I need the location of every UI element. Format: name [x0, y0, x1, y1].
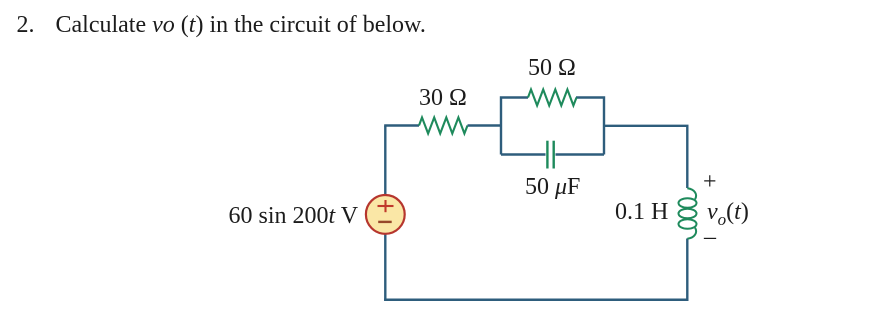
label plus terminal	[703, 170, 717, 194]
plus symbol inside source	[378, 200, 394, 212]
node: parallel box left edge	[501, 98, 528, 155]
label source value	[229, 204, 359, 228]
wire: box bottom left segment to capacitor	[501, 153, 546, 155]
wire: top-left horizontal into resistor R1	[384, 124, 419, 126]
label minus terminal	[704, 225, 716, 249]
wire: box top right segment	[576, 98, 604, 155]
resistor 50 ohm zigzag on box top	[528, 90, 577, 106]
title text	[17, 13, 426, 37]
capacitor C plates	[546, 141, 548, 169]
wire: below inductor to bottom-right corner	[686, 239, 688, 301]
wire: box right to top-right corner and down	[604, 126, 687, 188]
label 0.1 H	[615, 200, 668, 224]
minus symbol inside source	[378, 221, 392, 223]
label 30 ohm	[419, 86, 467, 110]
voltage source V1 circle	[366, 195, 405, 234]
label 50 uF	[525, 175, 580, 199]
wire: bottom horizontal	[384, 299, 688, 302]
wire: left vertical from top-left corner to bottom-left corner	[384, 126, 386, 301]
wire: resistor to parallel box	[468, 124, 503, 126]
resistor 30 ohm zigzag	[419, 118, 468, 134]
inductor L coil	[679, 188, 697, 238]
label 50 ohm	[528, 56, 576, 80]
label vo(t)	[707, 200, 749, 232]
wire: capacitor to box bottom right	[556, 153, 605, 155]
